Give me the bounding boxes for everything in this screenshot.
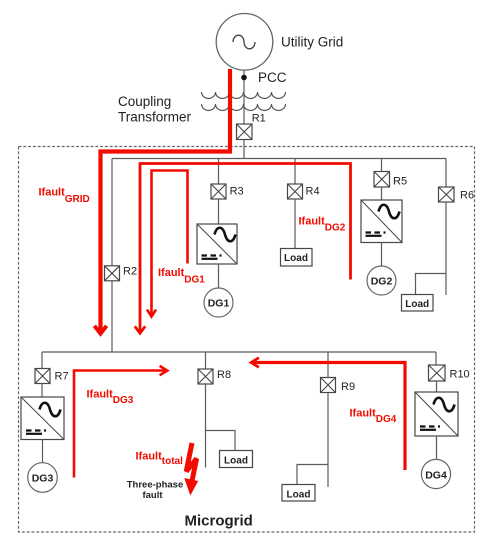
generator DG2 [367,266,396,295]
wire: branch to load L2 [416,274,447,295]
generator DG3 [28,463,58,493]
svg-text:DG2: DG2 [371,276,393,288]
svg-text:R4: R4 [306,185,320,197]
wire: inverter U1 to DG1 [218,264,220,288]
wire: R10 to inverter U4 [436,381,438,392]
svg-text:R8: R8 [217,369,231,381]
svg-text:R5: R5 [393,176,407,188]
wire: inverter U2 to DG2 [381,243,383,267]
svg-text:fault: fault [142,490,163,501]
wire: R3 to inverter U1 [218,199,220,224]
transformer T1 winding primary [202,92,286,99]
inverter U4 (DG4) [415,392,458,436]
wire: R1 to top bus [243,140,245,159]
svg-text:Utility Grid: Utility Grid [281,35,343,50]
wire: R2 to bottom bus [111,281,113,352]
svg-text:Load: Load [405,299,429,310]
wire: bottom bus to R8 [205,352,207,369]
relay R2 [105,266,120,281]
inverter U2 (DG2) [361,200,402,243]
inverter U1 (DG1) [197,224,237,264]
svg-text:Transformer: Transformer [118,110,192,125]
relay R6 [439,187,455,202]
load L1 [281,249,313,267]
svg-text:DG1: DG1 [208,298,230,310]
wire: inverter U3 to DG3 [42,440,44,463]
transformer T1 winding secondary [202,104,286,111]
fault current path Ifault_GRID [101,69,231,333]
generator DG4 [421,459,450,488]
wire: inverter U4 to DG4 [436,436,438,459]
wire: top bus to R4 [294,159,296,185]
inverter U3 (DG3) [21,397,64,440]
svg-text:DG3: DG3 [32,473,54,485]
svg-text:R2: R2 [123,266,137,278]
svg-text:Microgrid: Microgrid [185,513,253,530]
wire: bottom bus to R9 [327,352,329,378]
fault current path Ifault_DG2 [140,164,351,333]
wire: top bus right end down to R6 [445,159,447,188]
wire: R7 to inverter U3 [41,384,43,398]
relay R4 [288,184,303,199]
load L2 [402,295,434,312]
arrowhead Ifault_DG3 [160,366,168,375]
svg-text:Coupling: Coupling [118,94,171,109]
relay R9 [321,378,336,393]
arrowhead Ifault_DG1 [147,310,156,317]
utility grid source G1 [216,14,273,71]
generator DG1 [204,288,233,317]
fault current path Ifault_DG1 [152,171,188,316]
wire: R5 to inverter U2 [381,187,383,200]
svg-text:R6: R6 [460,190,474,202]
svg-text:R3: R3 [230,185,244,197]
load L3 [220,451,253,468]
relay R8 [198,369,213,384]
arrowhead Ifault_DG4 [251,358,259,368]
bottom feeder bus [42,351,436,353]
wire: grid to R1 through transformer [243,70,245,124]
relay R1 [237,124,253,140]
relay R3 [211,184,226,199]
svg-text:R10: R10 [450,369,470,381]
arrowhead Ifault_DG2 [135,326,145,333]
wire: top bus to R3 [218,159,220,185]
relay R7 [35,369,50,384]
svg-text:Load: Load [284,253,308,264]
lightning bolt: three-phase fault [184,443,198,496]
wire: top bus to R5 [381,159,383,172]
svg-text:Load: Load [224,456,248,467]
node PCC [241,75,247,81]
relay R5 [374,172,390,188]
top feeder bus [112,158,446,160]
fault current path Ifault_DG4 [252,363,405,471]
wire: top bus to R2 [111,159,113,266]
wire: R8 feeder to fault point [205,384,207,468]
wire: branch to load L3 [206,431,236,451]
svg-text:Three-phase: Three-phase [127,480,184,491]
svg-text:DG4: DG4 [425,469,447,481]
wire: R4 to load L1 [294,199,296,249]
wire: branch to load L4 [297,465,328,485]
svg-text:Load: Load [287,490,311,501]
wire: bottom bus to R7 [41,352,43,369]
fault current path Ifault_DG3 [74,371,167,478]
arrowhead Ifault_GRID [94,326,106,334]
wire: R9 feeder [327,393,329,488]
svg-text:R1: R1 [252,112,266,124]
svg-text:R7: R7 [55,371,69,383]
microgrid dashed border [19,147,475,533]
relay R10 [429,365,446,381]
wire: R6 feeder [445,202,447,295]
wire: bottom bus right end to R10 [435,352,437,365]
svg-text:PCC: PCC [258,70,287,85]
svg-text:R9: R9 [341,381,355,393]
load L4 [282,485,315,502]
